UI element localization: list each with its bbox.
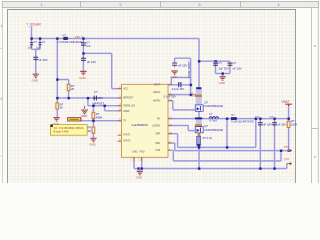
svg-text:4: 4 <box>0 24 2 28</box>
svg-text:GND: GND <box>79 76 85 80</box>
ground <box>52 118 59 126</box>
junction TERM_EN / divider <box>92 105 94 107</box>
wire MPPT column drop x57 <box>56 39 58 118</box>
junction ground rail / C11 column <box>259 167 261 169</box>
svg-text:CSD18563Q5A: CSD18563Q5A <box>204 104 223 108</box>
svg-text:2K: 2K <box>71 87 75 91</box>
ground <box>219 77 226 85</box>
power port VBAT <box>281 100 292 106</box>
wire REGN pin <box>168 94 199 96</box>
wire input cap column x83 <box>82 39 84 71</box>
junction input bus / C1 <box>30 37 32 39</box>
note yellow TS tag <box>68 117 81 121</box>
wire SRN sense <box>168 143 287 151</box>
capacitor C9 side <box>213 61 229 71</box>
wire output cap column x274 <box>274 119 276 169</box>
wire BTST <box>168 78 191 85</box>
svg-text:SRN: SRN <box>155 142 160 145</box>
U1 right pin names <box>152 83 161 152</box>
wire VREF jog <box>105 106 122 111</box>
svg-text:LODRV: LODRV <box>152 124 161 127</box>
junction MPPT column / VCC branch <box>56 78 58 80</box>
junction PH loop top <box>226 118 228 120</box>
ground <box>171 71 178 79</box>
svg-text:1uF 25V: 1uF 25V <box>218 67 229 71</box>
svg-text:1uF: 1uF <box>86 44 91 48</box>
svg-text:REGN: REGN <box>153 91 160 94</box>
junction SRN wire / VFB column <box>198 167 200 169</box>
junction ground rail / GND pin 2 <box>141 167 143 169</box>
svg-text:BTST: BTST <box>154 83 161 86</box>
wire VFB column <box>288 119 290 151</box>
wire HIDRV <box>168 101 195 110</box>
resistor R5 sense <box>197 136 213 146</box>
svg-text:TERM_EN: TERM_EN <box>123 105 135 108</box>
svg-text:L?: L? <box>63 33 67 37</box>
junction SRP wire / sense resistor <box>198 146 200 148</box>
junction input bus / C4 column <box>82 37 84 39</box>
svg-text:VO: V=3.35V-BQ1.5XP2A: VO: V=3.35V-BQ1.5XP2A <box>54 126 84 130</box>
wire battery output run <box>199 118 289 120</box>
capacitor C3 <box>33 55 47 62</box>
svg-text:C?: C? <box>42 40 46 44</box>
resistor R2 on x68 <box>67 84 75 91</box>
resistor R4 divider bottom <box>88 126 95 134</box>
svg-text:CSD18563Q5A: CSD18563Q5A <box>204 128 223 132</box>
resistor R3 divider top <box>92 112 102 119</box>
wire T_SOLAR net stub <box>31 26 33 38</box>
wire VFB drop <box>172 150 281 161</box>
svg-text:VIN_S: VIN_S <box>75 35 83 39</box>
svg-text:STAT2: STAT2 <box>123 140 131 143</box>
svg-text:2K: 2K <box>88 129 92 133</box>
wire solar input bus <box>32 38 200 40</box>
svg-text:VBAT: VBAT <box>281 100 289 104</box>
wire output cap column x260 <box>259 119 261 169</box>
svg-text:uF 25V: uF 25V <box>277 122 286 126</box>
svg-text:VREF: VREF <box>123 110 130 113</box>
svg-text:PH: PH <box>157 117 161 120</box>
svg-text:1uF 25V: 1uF 25V <box>93 96 103 100</box>
wire VBAT drop <box>288 105 290 119</box>
svg-text:R? 0.01: R? 0.01 <box>203 136 213 140</box>
svg-text:1uF: 1uF <box>36 45 41 49</box>
wire VCC feed <box>83 53 121 88</box>
wire side caps branch <box>199 61 230 76</box>
svg-text:uF 10V: uF 10V <box>87 60 96 64</box>
svg-text:TLS4120-4R7/NTS: TLS4120-4R7/NTS <box>231 120 254 124</box>
junction MPPSET / R2 branch <box>68 97 70 99</box>
svg-text:1uF: 1uF <box>28 45 33 49</box>
svg-text:a: a <box>314 44 316 48</box>
svg-text:499K: 499K <box>96 115 103 119</box>
svg-text:SRP: SRP <box>155 133 160 136</box>
svg-text:GND: GND <box>32 79 38 83</box>
svg-text:0.1uF 25V: 0.1uF 25V <box>164 94 177 98</box>
svg-text:TP?: TP? <box>284 157 290 161</box>
svg-text:100K: 100K <box>291 123 298 127</box>
wire LODRV <box>168 126 195 131</box>
U1 left pin names <box>123 88 135 143</box>
junction SRN wire / VFB riser <box>288 150 290 152</box>
svg-text:GND: GND <box>171 75 177 79</box>
capacitor C12 <box>270 115 287 127</box>
svg-text:bq24650RVA: bq24650RVA <box>132 123 149 127</box>
junction ground rail / sense column <box>280 150 282 152</box>
wire divider column x93 <box>92 106 94 138</box>
inductor L2 output <box>209 112 218 122</box>
capacitor C2 <box>36 40 45 49</box>
wire TS <box>81 120 122 122</box>
svg-text:8: 8 <box>0 97 2 101</box>
svg-text:GND: GND <box>136 176 142 180</box>
capacitor C11 <box>255 115 272 127</box>
svg-text:B?: B? <box>231 113 235 117</box>
svg-text:b: b <box>314 155 316 159</box>
svg-text:L?: L? <box>209 112 213 116</box>
capacitor C1 <box>28 40 38 49</box>
svg-text:C?: C? <box>178 81 182 85</box>
wire IC ground pins <box>134 157 142 168</box>
svg-text:C?: C? <box>94 90 98 94</box>
ground <box>32 74 39 82</box>
junction switch node PH <box>198 118 200 120</box>
ground main rail <box>136 169 143 180</box>
junction SRP riser / battery wire <box>255 118 257 120</box>
svg-text:C?: C? <box>255 115 259 119</box>
junction REGN vertical / REGN wire <box>190 94 192 96</box>
junction battery wire / C12 <box>273 118 275 120</box>
ground arrow TERM_EN <box>82 106 88 114</box>
junction TS / divider tap <box>92 120 94 122</box>
svg-text:4.7uH: 4.7uH <box>209 118 216 122</box>
svg-text:C?: C? <box>233 61 237 65</box>
svg-text:TP?: TP? <box>284 145 290 149</box>
test point TP2 <box>284 157 292 164</box>
capacitor C7 REGN <box>172 62 187 67</box>
svg-text:GND: GND <box>219 81 225 85</box>
svg-text:C?: C? <box>270 115 274 119</box>
junction TERM_EN / VREF jog <box>104 105 106 107</box>
junction side caps ground tap <box>222 72 224 74</box>
svg-text:T_SOLAR: T_SOLAR <box>26 23 41 27</box>
svg-text:MPPSET: MPPSET <box>92 101 104 105</box>
U1 pin numbers <box>119 86 121 142</box>
svg-text:GND: GND <box>132 151 138 154</box>
ground <box>79 71 86 79</box>
wire branch to R at x68 <box>57 80 68 99</box>
junction side caps / C9 <box>214 60 216 62</box>
transistor Q2 low side <box>195 117 224 136</box>
wire PH to switch node <box>168 118 199 120</box>
svg-text:CTC4032-CDB-2R2M: CTC4032-CDB-2R2M <box>58 41 82 44</box>
capacitor C6 inline MPPSET <box>92 90 103 100</box>
svg-text:PWM_BOOT: PWM_BOOT <box>187 61 191 78</box>
svg-text:C?: C? <box>33 40 37 44</box>
wire TERM_EN <box>88 98 122 106</box>
junction C4 column / VCC feed <box>82 52 84 54</box>
junction ground rail / C12 column <box>273 167 275 169</box>
junction MPPT column / MPPSET <box>56 97 58 99</box>
wire main vertical VIN drop <box>198 39 200 169</box>
ferrite bead B1 <box>231 113 254 124</box>
junction input bus / MPPT column <box>56 37 58 39</box>
svg-text:2K: 2K <box>60 106 64 110</box>
svg-text:MPPSET: MPPSET <box>123 96 134 99</box>
svg-text:uF 25V: uF 25V <box>178 63 187 67</box>
IC U1 bq24650RVA charge controller <box>118 84 172 161</box>
transistor Q1 high side <box>195 87 224 111</box>
capacitor C4 <box>81 41 91 48</box>
resistor R6 VFB <box>287 119 297 127</box>
svg-text:GND: GND <box>81 114 87 118</box>
note box <box>51 125 88 136</box>
svg-text:GND: GND <box>89 143 95 147</box>
svg-text:TS: TS <box>123 120 127 123</box>
U1 bottom pin names <box>132 151 145 154</box>
wire SRP sense <box>168 119 256 148</box>
svg-text:B-start 3.4Ah: B-start 3.4Ah <box>54 129 70 133</box>
svg-text:PAD: PAD <box>140 151 145 154</box>
junction battery wire / C11 <box>259 118 261 120</box>
pin stub Q1 gate <box>192 92 193 96</box>
wire REGN cap link <box>175 58 191 94</box>
junction input bus / C2 <box>39 37 41 39</box>
inductor L1 on bus <box>58 33 82 44</box>
svg-text:HIDRV: HIDRV <box>153 99 161 102</box>
svg-text:uF 10V: uF 10V <box>233 67 242 71</box>
wire ground rail <box>134 164 287 169</box>
svg-text:uF 25V: uF 25V <box>38 58 47 62</box>
junction MPPSET / TERM_EN drop <box>87 97 89 99</box>
junction BTST loop / REGN vertical <box>190 84 192 86</box>
capacitor C10 side <box>228 61 242 71</box>
svg-text:STAT1: STAT1 <box>123 134 131 137</box>
capacitor C8 bootstrap inline <box>172 81 185 91</box>
ground <box>89 138 96 146</box>
svg-text:VFB: VFB <box>156 149 161 152</box>
wire MPPSET <box>57 97 121 99</box>
junction PH loop bottom <box>226 146 228 148</box>
capacitor C5 <box>81 56 96 64</box>
svg-text:VCC: VCC <box>123 88 128 91</box>
junction VIN drop / side caps <box>198 60 200 62</box>
wire input caps pair <box>32 39 41 74</box>
svg-text:C?: C? <box>218 61 222 65</box>
svg-text:uF 25V: uF 25V <box>263 122 272 126</box>
resistor R1 on x57 <box>56 102 64 109</box>
svg-text:0.1uF 25V: 0.1uF 25V <box>172 87 185 91</box>
junction battery wire / VBAT drop <box>288 118 290 120</box>
test point TP1 <box>284 145 292 152</box>
junction ground rail / GND symbol stub <box>137 167 139 169</box>
wire PH loop down <box>226 119 228 148</box>
